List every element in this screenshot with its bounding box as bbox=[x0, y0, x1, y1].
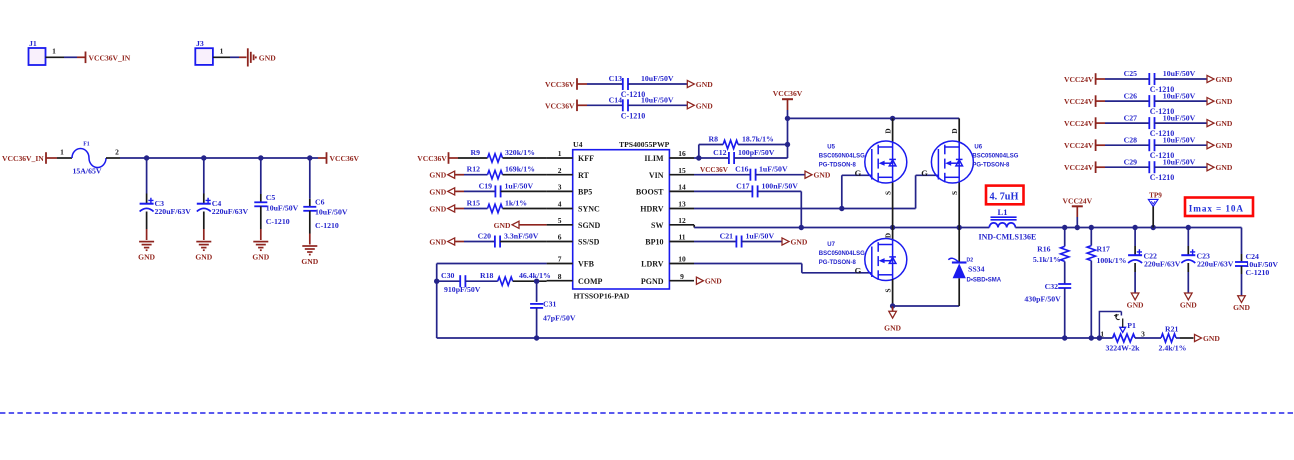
svg-text:10uF/50V: 10uF/50V bbox=[1163, 157, 1196, 166]
ground (C6) bbox=[302, 246, 317, 255]
svg-text:R18: R18 bbox=[480, 271, 494, 280]
svg-text:GND: GND bbox=[138, 253, 155, 262]
svg-text:10uF/50V: 10uF/50V bbox=[1163, 135, 1196, 144]
node C32 bottom bbox=[1062, 335, 1067, 340]
node SW-U5/U7 bbox=[890, 225, 895, 230]
wire U6 gate bbox=[915, 175, 917, 208]
node TP9 bbox=[1151, 225, 1156, 230]
svg-text:1uF/50V: 1uF/50V bbox=[505, 181, 534, 190]
svg-text:12: 12 bbox=[678, 216, 686, 225]
svg-text:VCC36V: VCC36V bbox=[417, 154, 447, 163]
svg-text:10uF/50V: 10uF/50V bbox=[1163, 113, 1196, 122]
ground (C22) bbox=[1131, 293, 1139, 300]
ground (C5) bbox=[253, 242, 268, 251]
wire bbox=[455, 190, 464, 192]
svg-text:SGND: SGND bbox=[578, 221, 600, 230]
wire bbox=[455, 174, 464, 176]
U4 pin 11 BP10 bbox=[669, 241, 694, 243]
wire bbox=[1090, 261, 1092, 338]
ground (C28) bbox=[1207, 142, 1214, 149]
svg-text:C5: C5 bbox=[266, 193, 276, 202]
U4 pin 6 SS/SD bbox=[547, 241, 573, 243]
ground (R15 row) bbox=[448, 205, 455, 212]
svg-text:R8: R8 bbox=[708, 134, 718, 143]
wire bbox=[1096, 144, 1105, 146]
svg-text:C17: C17 bbox=[736, 181, 750, 190]
svg-text:R16: R16 bbox=[1037, 244, 1051, 253]
svg-text:G: G bbox=[855, 168, 862, 178]
ground (PGND) bbox=[696, 277, 703, 284]
node ILIM bbox=[696, 155, 701, 160]
svg-text:C26: C26 bbox=[1124, 91, 1138, 100]
capacitor C29 10uF/50V bbox=[1148, 161, 1150, 173]
U4 pin 10 LDRV bbox=[669, 263, 694, 265]
svg-text:VCC36V_IN: VCC36V_IN bbox=[89, 53, 131, 62]
svg-text:1: 1 bbox=[220, 47, 224, 56]
svg-text:SW: SW bbox=[651, 221, 663, 230]
capacitor C13 10uF/50V bbox=[622, 78, 624, 90]
wire bbox=[503, 174, 547, 176]
node R17 top bbox=[1089, 225, 1094, 230]
wire top drain rail bbox=[788, 117, 960, 119]
svg-text:16: 16 bbox=[678, 149, 686, 158]
svg-text:6: 6 bbox=[558, 233, 562, 242]
potentiometer P1 3224W-2k bbox=[1113, 334, 1135, 342]
capacitor C5 10uF/50V bbox=[260, 158, 262, 194]
ground (R12 row) bbox=[448, 171, 455, 178]
svg-text:220uF/63V: 220uF/63V bbox=[1197, 259, 1234, 268]
wire bbox=[787, 99, 789, 110]
capacitor C25 10uF/50V bbox=[1148, 73, 1150, 85]
wire bbox=[1096, 100, 1105, 102]
svg-text:SYNC: SYNC bbox=[578, 205, 600, 214]
svg-text:GND: GND bbox=[696, 80, 713, 89]
resistor R18 46.4k/1% bbox=[498, 277, 513, 285]
svg-text:C12: C12 bbox=[713, 148, 727, 157]
svg-text:GND: GND bbox=[429, 187, 446, 196]
U4 pin 4 SYNC bbox=[547, 208, 573, 210]
ground (C23) bbox=[1185, 293, 1193, 300]
ground (C3) bbox=[139, 242, 154, 251]
wire bbox=[1155, 144, 1208, 146]
wire bbox=[1096, 166, 1105, 168]
transistor U6 BSC050N04LSG bbox=[958, 118, 960, 141]
capacitor C24 10uF/50V bbox=[1241, 228, 1243, 255]
ground (C21) bbox=[782, 238, 789, 245]
dashed separator line bbox=[0, 412, 1294, 414]
svg-text:S: S bbox=[951, 191, 959, 195]
wire bbox=[628, 104, 687, 106]
inductor L1 IND-CMLS136E bbox=[989, 223, 1015, 228]
U4 pin 16 ILIM bbox=[669, 157, 694, 159]
svg-text:11: 11 bbox=[678, 233, 685, 242]
svg-text:220uF/63V: 220uF/63V bbox=[1144, 259, 1181, 268]
svg-text:GND: GND bbox=[429, 171, 446, 180]
svg-text:GND: GND bbox=[705, 277, 722, 286]
svg-text:S: S bbox=[884, 191, 892, 195]
node C22 top bbox=[1132, 225, 1137, 230]
ground (SGND pin 5) bbox=[512, 221, 519, 228]
svg-text:LDRV: LDRV bbox=[641, 260, 664, 269]
svg-text:14: 14 bbox=[678, 183, 686, 192]
svg-text:R17: R17 bbox=[1097, 244, 1111, 253]
svg-text:C13: C13 bbox=[609, 74, 623, 83]
transistor U5 BSC050N04LSG bbox=[892, 118, 894, 141]
wire bbox=[455, 208, 464, 210]
svg-text:TP9: TP9 bbox=[1149, 191, 1162, 199]
node rail-C5 bbox=[258, 155, 263, 160]
ground (C14) bbox=[687, 102, 694, 109]
svg-text:13: 13 bbox=[678, 200, 686, 209]
wire bbox=[742, 241, 782, 243]
svg-text:ILIM: ILIM bbox=[644, 154, 664, 163]
resistor R17 100k/1% bbox=[1090, 228, 1092, 246]
wire LDRV to U7 gate bbox=[694, 263, 802, 265]
wire bbox=[437, 280, 461, 282]
svg-text:GND: GND bbox=[884, 323, 901, 332]
svg-text:D: D bbox=[951, 128, 959, 133]
svg-text:HTSSOP16-PAD: HTSSOP16-PAD bbox=[574, 292, 630, 301]
svg-text:P1: P1 bbox=[1127, 321, 1136, 330]
svg-text:VCC24V: VCC24V bbox=[1063, 196, 1093, 205]
svg-text:R21: R21 bbox=[1165, 324, 1179, 333]
svg-text:G: G bbox=[921, 168, 928, 178]
diode D2 SS34 bbox=[958, 228, 960, 263]
node C23 top bbox=[1186, 225, 1191, 230]
svg-text:100k/1%: 100k/1% bbox=[1097, 256, 1127, 265]
ground (C27) bbox=[1207, 120, 1214, 127]
svg-text:1k/1%: 1k/1% bbox=[505, 199, 527, 208]
svg-text:910pF/50V: 910pF/50V bbox=[444, 285, 481, 294]
svg-text:GND: GND bbox=[494, 221, 511, 230]
ground (C29) bbox=[1207, 164, 1214, 171]
node SW-U6/D2 bbox=[957, 225, 962, 230]
svg-text:2: 2 bbox=[115, 148, 119, 157]
svg-text:1: 1 bbox=[1100, 330, 1104, 339]
wire bbox=[500, 241, 546, 243]
capacitor C3 220uF/63V bbox=[146, 158, 148, 194]
svg-text:PG-TDSON-8: PG-TDSON-8 bbox=[972, 163, 1010, 169]
wire bbox=[536, 281, 538, 302]
ground (R21) bbox=[1195, 334, 1202, 341]
svg-text:GND: GND bbox=[429, 205, 446, 214]
capacitor C30 910pF/50V bbox=[459, 275, 461, 287]
wire bbox=[694, 174, 750, 176]
svg-text:Imax = 10A: Imax = 10A bbox=[1189, 203, 1244, 213]
svg-text:10: 10 bbox=[678, 255, 686, 264]
svg-text:R12: R12 bbox=[467, 165, 481, 174]
svg-text:3.3nF/50V: 3.3nF/50V bbox=[504, 232, 539, 241]
wire bbox=[628, 83, 687, 85]
svg-text:BSC050N04LSG: BSC050N04LSG bbox=[819, 154, 865, 160]
svg-text:4. 7uH: 4. 7uH bbox=[990, 192, 1019, 203]
svg-text:U7: U7 bbox=[827, 242, 835, 248]
capacitor C16 1uF/50V bbox=[749, 169, 751, 181]
resistor R12 169k/1% bbox=[488, 171, 503, 179]
svg-text:BP10: BP10 bbox=[645, 238, 663, 247]
svg-text:1: 1 bbox=[558, 149, 562, 158]
J3 pin 1 wire bbox=[213, 56, 230, 58]
wire input rail bbox=[106, 157, 120, 159]
svg-text:R15: R15 bbox=[467, 199, 481, 208]
svg-text:D: D bbox=[884, 128, 892, 133]
wire bbox=[449, 157, 459, 159]
svg-text:1: 1 bbox=[52, 47, 56, 56]
node P1 wiper loop bbox=[1097, 335, 1102, 340]
connector J3 bbox=[195, 48, 213, 65]
wire bbox=[503, 157, 547, 159]
node C30 junction bbox=[434, 279, 439, 284]
svg-text:VCC36V_IN: VCC36V_IN bbox=[2, 154, 44, 163]
ground (C26) bbox=[1207, 98, 1214, 105]
U4 pin 15 VIN bbox=[669, 174, 694, 176]
svg-text:2: 2 bbox=[558, 166, 562, 175]
wire bbox=[46, 157, 57, 159]
wire bbox=[893, 305, 960, 307]
transistor U7 BSC050N04LSG bbox=[892, 228, 894, 241]
capacitor C21 1uF/50V bbox=[735, 236, 737, 248]
svg-text:VCC36V: VCC36V bbox=[545, 101, 575, 110]
wire U5 gate bbox=[841, 175, 843, 208]
svg-text:BSC050N04LSG: BSC050N04LSG bbox=[972, 154, 1018, 160]
svg-text:C6: C6 bbox=[315, 197, 325, 206]
wire bbox=[758, 190, 802, 192]
svg-text:GND: GND bbox=[301, 257, 318, 266]
svg-text:GND: GND bbox=[1127, 301, 1144, 310]
wire bbox=[1015, 227, 1241, 229]
svg-text:10uF/50V: 10uF/50V bbox=[266, 203, 299, 212]
U4 pin 5 SGND bbox=[547, 224, 573, 226]
capacitor C19 1uF/50V bbox=[494, 185, 496, 197]
wire bbox=[1176, 337, 1180, 339]
svg-text:VIN: VIN bbox=[649, 171, 664, 180]
svg-text:C25: C25 bbox=[1124, 69, 1138, 78]
svg-text:C27: C27 bbox=[1124, 113, 1138, 122]
svg-text:VCC24V: VCC24V bbox=[1064, 75, 1094, 84]
svg-text:46.4k/1%: 46.4k/1% bbox=[519, 271, 551, 280]
svg-text:3: 3 bbox=[558, 183, 562, 192]
svg-text:D: D bbox=[884, 233, 892, 238]
svg-text:GND: GND bbox=[1216, 75, 1233, 84]
ground (C24) bbox=[1238, 296, 1246, 303]
wire bbox=[577, 104, 587, 106]
svg-text:3224W-2k: 3224W-2k bbox=[1106, 343, 1141, 352]
svg-text:VCC24V: VCC24V bbox=[1064, 97, 1094, 106]
svg-text:220uF/63V: 220uF/63V bbox=[155, 207, 192, 216]
svg-text:J1: J1 bbox=[29, 39, 37, 48]
U4 pin 3 BP5 bbox=[547, 190, 573, 192]
svg-text:F1: F1 bbox=[83, 142, 90, 148]
svg-text:U6: U6 bbox=[974, 145, 982, 151]
capacitor C12 100pF/50V bbox=[728, 152, 730, 164]
wire bbox=[465, 280, 497, 282]
svg-text:GND: GND bbox=[1233, 303, 1250, 312]
wire bbox=[536, 308, 538, 338]
wire bbox=[455, 241, 464, 243]
wire bbox=[734, 157, 787, 159]
svg-text:D2: D2 bbox=[967, 258, 974, 264]
svg-text:8: 8 bbox=[558, 272, 562, 281]
svg-text:PG-TDSON-8: PG-TDSON-8 bbox=[819, 163, 857, 169]
svg-text:7: 7 bbox=[558, 255, 562, 264]
power port VCC36V (rail right) bbox=[326, 152, 328, 164]
svg-text:1uF/50V: 1uF/50V bbox=[759, 165, 788, 174]
wire bbox=[1155, 100, 1208, 102]
svg-text:GND: GND bbox=[814, 171, 831, 180]
svg-text:100nF/50V: 100nF/50V bbox=[762, 181, 799, 190]
svg-text:PG-TDSON-8: PG-TDSON-8 bbox=[819, 260, 857, 266]
wire VFB pin7 bbox=[437, 263, 547, 265]
svg-text:C20: C20 bbox=[478, 232, 492, 241]
capacitor C14 10uF/50V bbox=[622, 99, 624, 111]
svg-text:C31: C31 bbox=[543, 300, 557, 309]
svg-text:47pF/50V: 47pF/50V bbox=[543, 314, 576, 323]
wire bbox=[694, 190, 752, 192]
capacitor C32 430pF/50V bbox=[1058, 283, 1071, 285]
svg-text:C32: C32 bbox=[1045, 282, 1059, 291]
node U7 source bbox=[890, 303, 895, 308]
svg-text:9: 9 bbox=[680, 272, 684, 281]
node BOOST-SW bbox=[799, 225, 804, 230]
svg-text:SS34: SS34 bbox=[968, 264, 985, 273]
svg-text:VCC36V: VCC36V bbox=[330, 154, 360, 163]
ground (U7 source) bbox=[892, 306, 894, 311]
wire bbox=[1096, 78, 1105, 80]
svg-text:10uF/50V: 10uF/50V bbox=[1163, 91, 1196, 100]
svg-text:VCC36V: VCC36V bbox=[773, 89, 803, 98]
svg-text:U5: U5 bbox=[827, 145, 835, 151]
svg-text:C14: C14 bbox=[609, 95, 623, 104]
fuse F1 bbox=[72, 149, 106, 168]
svg-text:15A/65V: 15A/65V bbox=[73, 167, 102, 176]
svg-text:PGND: PGND bbox=[641, 277, 664, 286]
wire bbox=[694, 157, 729, 159]
svg-text:C-1210: C-1210 bbox=[315, 221, 339, 230]
wire bbox=[1155, 166, 1208, 168]
wire bbox=[1135, 337, 1161, 339]
svg-text:L1: L1 bbox=[998, 207, 1008, 217]
wire bbox=[1064, 288, 1066, 338]
U4 pin 9 PGND bbox=[669, 280, 694, 282]
node R8-VCC36V bbox=[785, 142, 790, 147]
resistor R16 5.1k/1% bbox=[1064, 228, 1066, 247]
svg-text:220uF/63V: 220uF/63V bbox=[212, 207, 249, 216]
svg-text:VCC24V: VCC24V bbox=[1064, 163, 1094, 172]
capacitor C22 220uF/63V bbox=[1134, 228, 1136, 247]
ground (C13) bbox=[687, 80, 694, 87]
svg-text:VCC36V: VCC36V bbox=[545, 80, 575, 89]
wire bbox=[503, 208, 547, 210]
svg-text:C30: C30 bbox=[441, 271, 455, 280]
ground GND (J3, bar style) bbox=[248, 48, 256, 66]
svg-text:VCC24V: VCC24V bbox=[1064, 141, 1094, 150]
node drain rail bbox=[785, 116, 790, 121]
svg-text:1: 1 bbox=[60, 148, 64, 157]
resistor R9 320k/1% bbox=[488, 154, 503, 162]
resistor R8 18.7k/1% bbox=[723, 140, 738, 148]
svg-text:VFB: VFB bbox=[578, 260, 595, 269]
node rail-C4 bbox=[201, 155, 206, 160]
svg-text:BSC050N04LSG: BSC050N04LSG bbox=[819, 251, 865, 257]
svg-text:GND: GND bbox=[252, 253, 269, 262]
wire SW node bbox=[693, 225, 695, 228]
wire bbox=[519, 224, 547, 226]
svg-text:RT: RT bbox=[578, 171, 589, 180]
svg-text:C28: C28 bbox=[1124, 135, 1138, 144]
svg-text:GND: GND bbox=[195, 253, 212, 262]
svg-text:GND: GND bbox=[1180, 301, 1197, 310]
svg-text:U4: U4 bbox=[573, 140, 583, 149]
svg-text:4: 4 bbox=[558, 200, 562, 209]
wire bbox=[513, 280, 547, 282]
wire bbox=[1096, 122, 1105, 124]
ground (C25) bbox=[1207, 75, 1214, 82]
svg-text:BP5: BP5 bbox=[578, 188, 592, 197]
capacitor C6 10uF/50V bbox=[309, 158, 311, 199]
svg-text:D•SBD•SMA: D•SBD•SMA bbox=[967, 277, 1002, 283]
node R16 top bbox=[1062, 225, 1067, 230]
U4 pin 8 COMP bbox=[547, 280, 573, 282]
power port VCC36V_IN (J1) bbox=[85, 52, 87, 64]
U4 pin 12 SW bbox=[669, 224, 694, 226]
svg-text:C16: C16 bbox=[735, 165, 749, 174]
wire bbox=[1155, 78, 1208, 80]
svg-text:J3: J3 bbox=[196, 39, 204, 48]
capacitor C20 3.3nF/50V bbox=[494, 236, 496, 248]
capacitor C26 10uF/50V bbox=[1148, 95, 1150, 107]
svg-text:GND: GND bbox=[429, 238, 446, 247]
svg-text:HDRV: HDRV bbox=[640, 205, 663, 214]
connector J1 bbox=[29, 48, 46, 65]
svg-text:GND: GND bbox=[259, 53, 276, 62]
svg-text:BOOST: BOOST bbox=[636, 188, 664, 197]
node COMP-C31 bbox=[534, 279, 539, 284]
op-amp U4 TPS40055PWP (controller IC) bbox=[573, 150, 670, 289]
svg-text:10uF/50V: 10uF/50V bbox=[1163, 69, 1196, 78]
svg-text:C-1210: C-1210 bbox=[621, 111, 645, 120]
svg-text:VCC24V: VCC24V bbox=[1064, 119, 1094, 128]
svg-text:C-1210: C-1210 bbox=[1150, 173, 1174, 182]
node U5 drain bbox=[890, 116, 895, 121]
ground (C4) bbox=[196, 242, 211, 251]
svg-text:10uF/50V: 10uF/50V bbox=[315, 207, 348, 216]
svg-text:C-1210: C-1210 bbox=[1246, 268, 1270, 277]
wire bbox=[756, 174, 805, 176]
svg-text:GND: GND bbox=[1216, 97, 1233, 106]
svg-text:5: 5 bbox=[558, 216, 562, 225]
svg-text:GND: GND bbox=[1203, 334, 1220, 343]
svg-text:IND-CMLS136E: IND-CMLS136E bbox=[979, 233, 1037, 242]
annotation 4.7uH (red box) bbox=[986, 186, 1024, 205]
svg-text:10uF/50V: 10uF/50V bbox=[641, 74, 674, 83]
wire bbox=[738, 144, 787, 146]
svg-text:2.4k/1%: 2.4k/1% bbox=[1159, 343, 1187, 352]
J1 pin 1 wire bbox=[46, 56, 65, 58]
svg-text:VCC36V: VCC36V bbox=[700, 166, 729, 174]
wire bbox=[698, 145, 700, 159]
wire bbox=[501, 190, 547, 192]
svg-text:S: S bbox=[884, 289, 892, 293]
node rail-C6 bbox=[307, 155, 312, 160]
U4 pin 2 RT bbox=[547, 174, 573, 176]
svg-text:GND: GND bbox=[1216, 119, 1233, 128]
wire bbox=[694, 241, 736, 243]
svg-text:KFF: KFF bbox=[578, 154, 594, 163]
svg-text:GND: GND bbox=[1216, 163, 1233, 172]
wire bbox=[436, 264, 438, 339]
svg-text:169k/1%: 169k/1% bbox=[505, 165, 535, 174]
svg-text:430pF/50V: 430pF/50V bbox=[1024, 294, 1061, 303]
